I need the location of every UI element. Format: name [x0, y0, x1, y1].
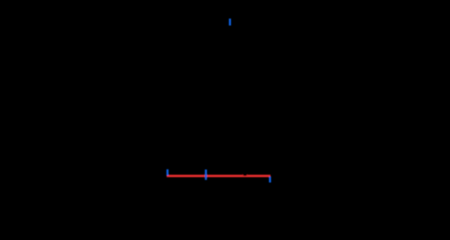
- cursor I (blue bar, top center): [229, 19, 231, 26]
- notch (black dot overlapping line top): [242, 171, 247, 176]
- tick right (below line): [269, 177, 271, 183]
- red segment (number line): [167, 175, 271, 177]
- tick middle (crossing line): [205, 170, 207, 180]
- tick left (above line): [166, 169, 168, 175]
